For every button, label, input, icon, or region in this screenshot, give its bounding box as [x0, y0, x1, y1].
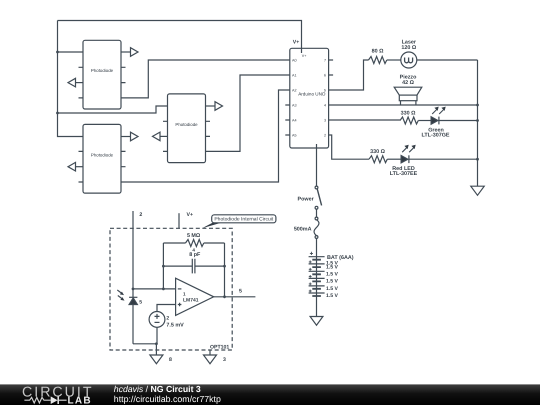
- node junction green row and bus: [476, 119, 479, 122]
- svg-text:LAB: LAB: [68, 395, 92, 405]
- svg-text:hcdavis / NG Circuit 3: hcdavis / NG Circuit 3: [114, 384, 201, 394]
- svg-text:3: 3: [223, 357, 226, 363]
- photodiode box X1: [68, 40, 138, 109]
- svg-text:1.5 V: 1.5 V: [326, 286, 338, 292]
- resistor R3 330 ohm (red): [369, 149, 387, 163]
- wire red LED to bus: [409, 158, 478, 160]
- wire battery to ground: [316, 296, 318, 317]
- wire source bottom: [156, 327, 158, 344]
- wire bus to box3 pin1 (jog up): [58, 106, 168, 113]
- op-amp U1 LM741: [176, 278, 214, 315]
- photodiode box X3: [153, 94, 223, 163]
- wire Arduino pin4 piezo row: [329, 104, 478, 106]
- wire box2 pin4 to Arduino A2: [121, 90, 290, 182]
- svg-text:V+: V+: [302, 54, 307, 58]
- svg-text:Photodiode: Photodiode: [91, 152, 114, 157]
- svg-text:Photodiode: Photodiode: [175, 122, 198, 127]
- wire Arduino bottom pin to switch: [316, 144, 318, 186]
- svg-text:80 Ω: 80 Ω: [372, 49, 384, 55]
- svg-text:6: 6: [324, 73, 326, 77]
- battery V1 BAT (6AA): [309, 252, 354, 299]
- wire Arduino pin3 green LED row: [329, 119, 400, 121]
- ground right bus: [471, 186, 484, 195]
- ground pin 3: [204, 355, 217, 364]
- svg-text:8 pF: 8 pF: [189, 252, 201, 258]
- voltage source V2 7.5 mV: [149, 312, 184, 329]
- wire lamp to right bus: [417, 59, 478, 61]
- wire feedback right vertical: [224, 243, 226, 297]
- wire Arduino pin2 down to red LED row: [329, 135, 369, 159]
- annotation callout Photodiode Internal Circuit: [202, 215, 276, 229]
- svg-text:A0: A0: [292, 58, 297, 62]
- svg-text:5: 5: [139, 299, 142, 305]
- op-amp block U2 Arduino UNO: [285, 48, 333, 148]
- svg-text:A2: A2: [292, 88, 297, 92]
- svg-text:1: 1: [183, 292, 186, 297]
- svg-text:LM741: LM741: [183, 298, 199, 304]
- svg-text:5: 5: [239, 289, 242, 295]
- wire rail to ground 8: [155, 344, 157, 355]
- resistor R1 80 ohm: [369, 49, 387, 64]
- svg-text:7.5 mV: 7.5 mV: [166, 322, 184, 328]
- svg-text:330 Ω: 330 Ω: [370, 149, 385, 155]
- wire top V+ rail from left bus to Arduino V+: [58, 21, 302, 54]
- svg-text:2: 2: [166, 315, 169, 321]
- wire feedback left vertical: [162, 243, 164, 289]
- svg-text:3: 3: [324, 118, 326, 122]
- svg-text:7: 7: [324, 58, 326, 62]
- node junction red row and bus: [476, 158, 479, 161]
- wire switch to fuse: [316, 209, 318, 217]
- wire right bus vertical: [477, 60, 479, 186]
- svg-text:1.5 V: 1.5 V: [326, 293, 338, 299]
- svg-text:500mA: 500mA: [294, 226, 312, 232]
- svg-text:2: 2: [139, 212, 142, 218]
- svg-text:A5: A5: [292, 133, 297, 137]
- svg-text:A3: A3: [292, 103, 297, 107]
- wire resistor to green LED: [418, 120, 431, 122]
- switch SW1 Power: [298, 186, 322, 209]
- svg-text:Photodiode: Photodiode: [91, 68, 114, 73]
- node junction piezo row and bus: [476, 104, 479, 107]
- fuse F1 500mA: [294, 217, 319, 238]
- resistor R2 330 ohm (green): [400, 111, 418, 125]
- svg-text:A4: A4: [292, 118, 297, 122]
- svg-text:Power: Power: [298, 196, 315, 202]
- wire fuse to battery: [316, 238, 318, 256]
- wire box1 pin4 to Arduino A0: [121, 60, 290, 98]
- svg-text:LTL-307GE: LTL-307GE: [421, 133, 449, 139]
- photodiode D5 symbol: [117, 290, 142, 305]
- wire bottom rail: [133, 343, 156, 345]
- svg-text:5 MΩ: 5 MΩ: [187, 233, 201, 239]
- svg-text:V+: V+: [187, 212, 194, 218]
- speaker SP1 Piezzo: [394, 74, 422, 105]
- LED D2 Red LED LTL-307EE: [390, 145, 418, 177]
- svg-text:A1: A1: [292, 73, 297, 77]
- svg-text:Arduino UNO: Arduino UNO: [298, 92, 326, 97]
- wire left vertical bus down to Photodiode box2 pin: [58, 21, 84, 137]
- wire box3 pin4 to Arduino A1: [206, 75, 290, 151]
- logo diode: [51, 396, 58, 404]
- photodiode box X2: [68, 124, 138, 193]
- svg-text:1.5 V: 1.5 V: [326, 265, 338, 271]
- wire resistor to lamp: [387, 59, 401, 61]
- lamp LA1 Laser: [401, 40, 417, 69]
- node junction bus to box3 feed: [56, 112, 59, 115]
- ground battery: [310, 317, 323, 326]
- wire box to ground 3: [209, 350, 211, 355]
- node junction bus to box1: [56, 51, 59, 54]
- svg-text:V+: V+: [293, 40, 300, 46]
- wire pin 2 stub top: [132, 211, 134, 297]
- wire green LED to bus: [439, 120, 478, 122]
- svg-text:2: 2: [324, 133, 326, 137]
- svg-text:8: 8: [169, 357, 172, 363]
- logo resistor zigzag: [24, 397, 50, 403]
- svg-text:4: 4: [324, 103, 326, 107]
- svg-text:http://circuitlab.com/cr77ktp: http://circuitlab.com/cr77ktp: [114, 394, 221, 404]
- svg-text:1.5 V: 1.5 V: [326, 272, 338, 278]
- wire op-amp output pin 5: [214, 296, 256, 298]
- svg-text:Photodiode Internal Circuit: Photodiode Internal Circuit: [214, 217, 274, 223]
- LED D1 Green LTL-307GE: [421, 107, 449, 139]
- svg-text:42 Ω: 42 Ω: [402, 80, 414, 86]
- wire box1 pin1 to bus: [58, 51, 84, 53]
- svg-text:330 Ω: 330 Ω: [401, 111, 416, 117]
- svg-text:1.5 V: 1.5 V: [326, 279, 338, 285]
- svg-text:OPT101: OPT101: [210, 344, 229, 350]
- wire resistor to red LED: [387, 158, 401, 160]
- capacitor C1 8 pF: [163, 252, 224, 274]
- OPT101 dashed enclosure: [110, 228, 232, 350]
- ground pin 8: [150, 355, 163, 364]
- wire photodiode to bottom rail: [132, 305, 134, 344]
- wire Arduino pin5 to laser row: [329, 60, 369, 90]
- footer bar: [0, 384, 540, 405]
- wire V+ stub: [178, 213, 180, 228]
- svg-text:LTL-307EE: LTL-307EE: [390, 171, 418, 177]
- svg-text:120 Ω: 120 Ω: [401, 45, 416, 51]
- node junctions cap branch: [162, 265, 165, 268]
- wire op-amp minus input: [133, 288, 176, 290]
- wire op-amp plus input: [157, 305, 176, 312]
- svg-text:5: 5: [324, 88, 326, 92]
- resistor R4 5 Mohm feedback: [163, 233, 224, 253]
